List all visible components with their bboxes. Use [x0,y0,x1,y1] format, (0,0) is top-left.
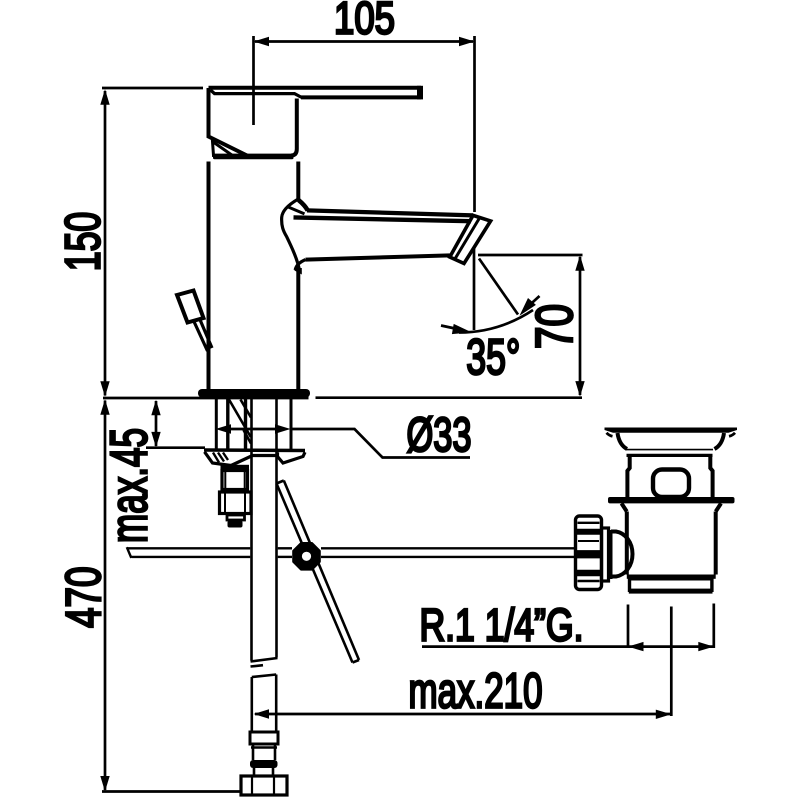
dim 470 bottom extension line [102,790,240,793]
clamp flange top edge [204,448,305,452]
pop-up rod diagonal [277,481,360,663]
spout second top line [294,217,472,221]
upper nut [222,471,248,490]
dim O33 arrows [216,424,291,433]
dim 150 top extension line [102,87,203,90]
dim max.210 extension line [670,607,673,717]
faucet lever top bar [209,86,424,100]
pivot nut knurled [575,516,603,590]
spout bottom fillet [295,260,305,270]
mounting stud right line [244,399,247,449]
svg-text:35°: 35° [466,329,520,385]
shank outer right line [290,399,293,450]
drain lower box [630,579,712,591]
spout top outline [307,210,473,215]
dim R extension line right [712,604,715,649]
countertop reference line [103,396,582,399]
hose neck line [251,746,277,748]
svg-text:105: 105 [334,0,395,44]
shank thread hatch 2 [241,400,252,418]
drain overflow hole [653,470,689,498]
35 degree left arrow leader [441,324,472,334]
dim 470 dimension line [100,399,109,791]
svg-text:max.210: max.210 [409,665,543,719]
hose small neck [254,768,273,776]
hose collar [250,732,278,744]
pivot washer [602,528,609,581]
side lever stem [194,319,213,352]
pivot washer line [610,530,613,579]
faucet body left edge [207,162,211,390]
drain lower box bottom [629,590,713,593]
drain rim end ticks [607,433,736,437]
clamp flange right wing [278,452,306,463]
spout aerator tip [450,215,491,263]
clamp flange pointer [231,456,276,466]
dim R extension line left [627,605,630,649]
mounting stud left line [226,399,229,449]
35 degree spray direction line [479,259,518,315]
dim 105 dimension line [254,37,475,46]
svg-text:70: 70 [526,304,584,349]
faucet body right edge lower [296,269,300,390]
drain funnel ring thin [626,449,713,451]
nut collar [221,465,250,469]
dim max.45 bottom extension line [146,446,205,449]
svg-text:R.1 1/4”G.: R.1 1/4”G. [420,600,584,651]
faucet handle body [209,88,302,156]
shank thread hatch 3 [244,430,252,444]
lower nut [220,492,252,514]
dim 105 left extension line [252,36,255,125]
drain funnel right side [715,433,725,449]
drain funnel left side [618,433,628,449]
drain mid flange [608,497,735,503]
svg-text:max.45: max.45 [100,428,158,543]
dim 70 dimension line [575,255,584,396]
dim max.210 dimension line [254,709,672,719]
horizontal pop-up rod [127,547,575,558]
spout bottom line [306,255,450,259]
hose end nut [241,776,287,795]
drain funnel ring thick [627,454,713,457]
drain upper body sides [627,457,712,498]
spout root inner contour [287,207,305,214]
svg-text:Ø33: Ø33 [407,409,472,462]
drain lower body sides [627,512,716,575]
drain lower taper [622,503,722,511]
drain top rim [605,428,738,433]
dim 150 dimension line [100,89,109,397]
shank thread hatch 1 [229,400,251,438]
handle notch [213,142,233,156]
35 degree reference vertical line [473,248,476,330]
spout root seam [282,199,300,271]
35 degree right arrow leader [520,296,540,316]
hose dark band [250,760,278,768]
faucet body right edge upper [296,162,300,202]
dim R.1 1/4 G dimension line [422,642,714,651]
dim O33 leader line [291,429,471,458]
handle bottom band [213,154,294,160]
stud tip [228,521,243,528]
spout root hook [299,200,308,211]
hose neck [253,744,275,760]
svg-text:150: 150 [56,212,110,272]
clamp flange left wing [205,452,232,466]
35 degree arc [459,310,533,333]
side lever head [177,291,204,323]
drain bottom band [627,575,716,579]
svg-text:470: 470 [56,566,111,628]
dim 70 top extension line [478,254,583,257]
ball joint [294,544,320,570]
spout root bottom wedge [295,268,302,275]
pivot socket bulge [611,532,633,577]
dim max.45 dimension line [151,400,160,448]
base plate [198,389,310,398]
stud tip collar [227,515,245,520]
shank outer left line [215,399,218,449]
dim 105 right extension line [473,36,476,212]
supply tube lower segment [252,675,276,733]
supply tube upper segment [251,398,278,667]
